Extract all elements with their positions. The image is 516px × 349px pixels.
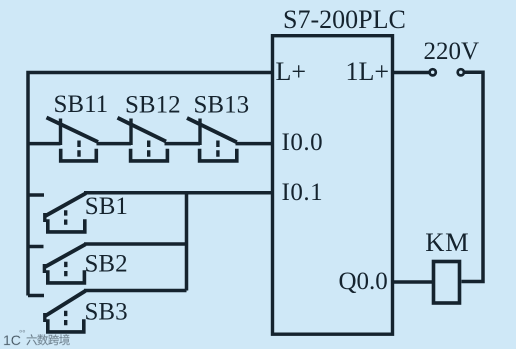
pushbutton SB1 (NO) [44,193,86,232]
wire: SB3 to right bus [84,289,187,293]
pushbutton SB12 (NC) [118,118,168,161]
label SB1 [85,193,128,220]
PLC box U1 [273,36,393,335]
label S7-200PLC [283,5,406,34]
svg-text:SB2: SB2 [85,251,128,278]
svg-text:I0.1: I0.1 [282,179,324,206]
wire: SB2 to right bus [84,242,187,246]
wire: right bus of SB group [185,193,189,291]
watermark logo [3,329,70,348]
contactor coil KM [434,262,460,304]
wire: 1L+ to 220V terminal [393,71,430,75]
label SB11 [54,91,109,118]
pushbutton SB11 (NC) [47,118,99,162]
label SB3 [85,299,128,326]
wire: I0.0 series line segment from left bus to SB11 [28,142,61,146]
terminal circle 220V left [430,69,436,75]
label SB2 [85,251,128,278]
svg-text:SB1: SB1 [85,193,128,220]
wire: SB3 stub from left bus [28,294,44,298]
label 220V [424,38,480,65]
wire: L+ top rail and left bus [28,73,273,296]
pin label I0.1 [282,179,324,206]
wire: I0.1 line from SB1 to I0.1 pin [84,191,273,195]
svg-text:Q0.0: Q0.0 [339,268,388,295]
label SB13 [194,92,250,119]
svg-text:S7-200PLC: S7-200PLC [283,5,406,34]
wire: Q0.0 to KM coil [393,280,433,284]
svg-text:SB11: SB11 [54,91,109,118]
svg-text:KM: KM [425,227,469,257]
pushbutton SB3 (NO) [44,291,85,332]
wire: SB1 stub from left bus [28,193,44,197]
pushbutton SB13 (NC) [187,118,237,161]
wire: SB2 stub from left bus [28,245,44,249]
pin label 1L+ [346,57,390,86]
svg-text:L+: L+ [276,57,307,86]
pin label I0.0 [282,129,324,156]
label SB12 [125,92,181,119]
wire: segment SB13 to I0.0 pin [236,142,273,146]
pushbutton SB2 (NO) [44,244,86,283]
svg-text:1L+: 1L+ [346,57,390,86]
terminal circle 220V right [458,69,464,75]
pin label Q0.0 [339,268,388,295]
svg-text:SB13: SB13 [194,92,250,119]
svg-text:六数跨境: 六数跨境 [26,333,70,347]
svg-text:I0.0: I0.0 [282,129,324,156]
pin label L+ [276,57,307,86]
svg-text:220V: 220V [424,38,480,65]
svg-text:SB12: SB12 [125,92,181,119]
svg-text:SB3: SB3 [85,299,128,326]
wire: 220V right terminal down to KM [462,72,484,281]
wire: segment SB11 to SB12 [97,142,132,146]
wire: segment SB12 to SB13 [165,142,201,146]
label KM [425,227,469,257]
svg-text:°°: °° [19,329,25,338]
